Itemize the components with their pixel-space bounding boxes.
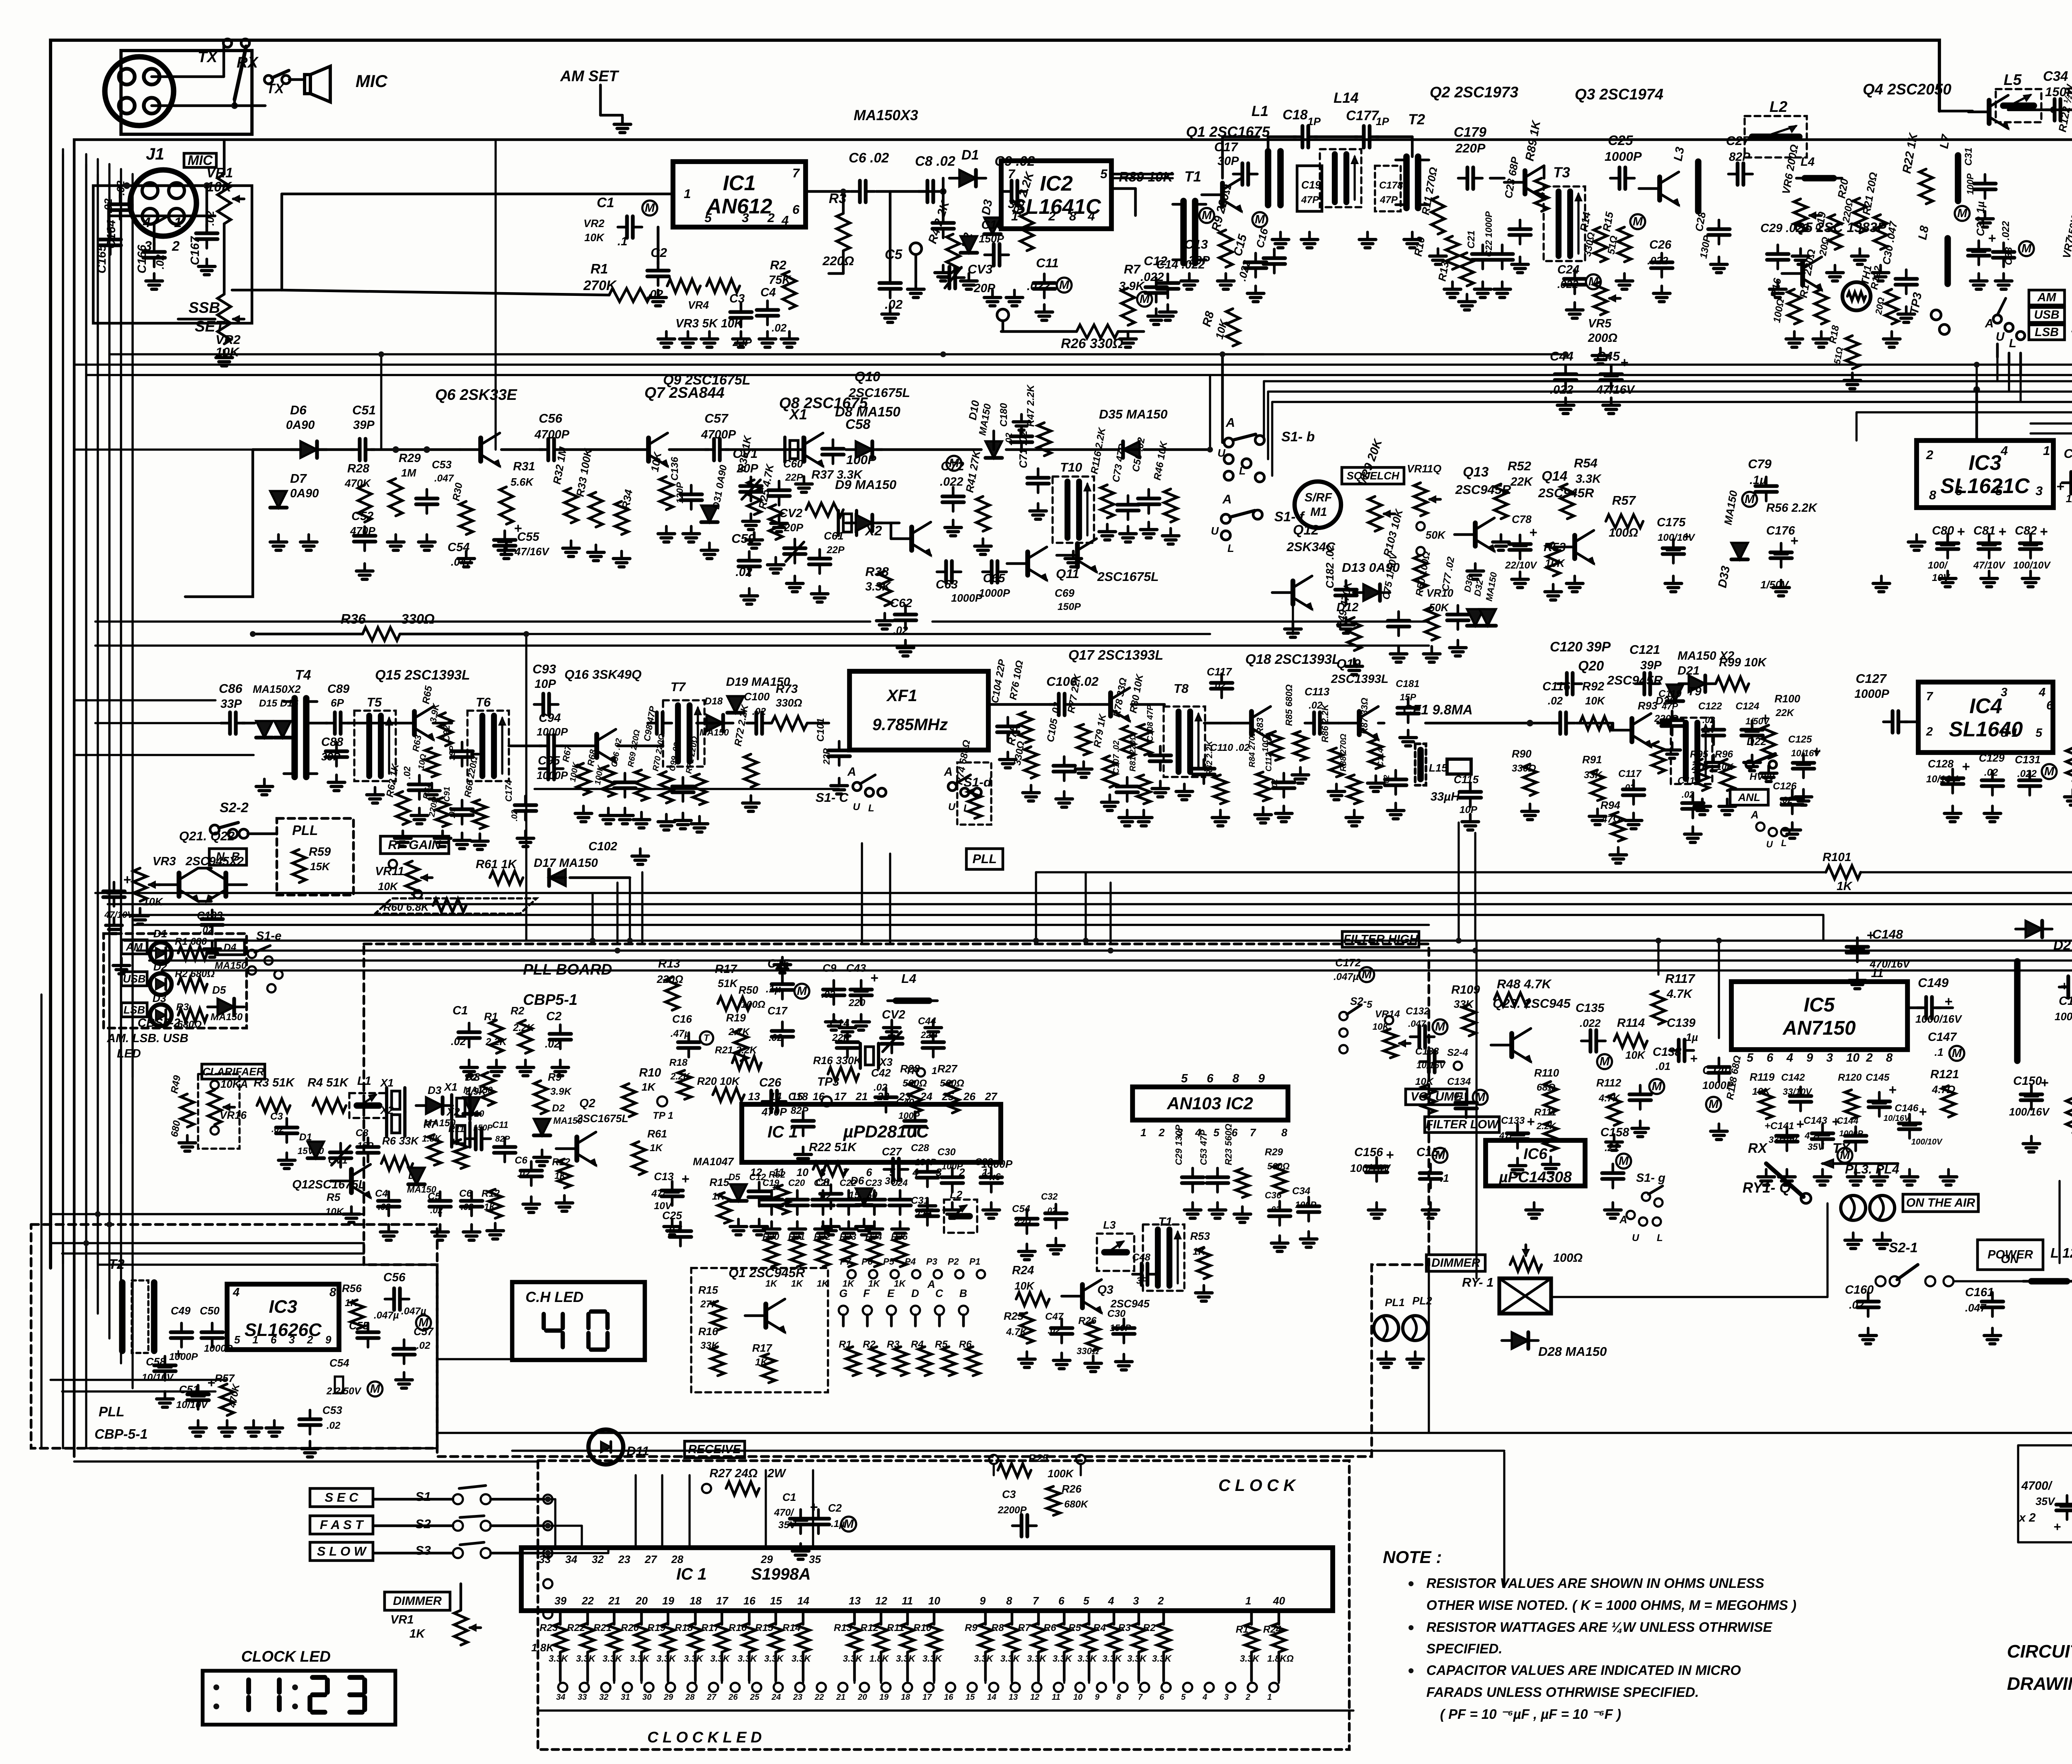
- svg-text:MIC: MIC: [356, 71, 388, 91]
- svg-text:M: M: [1435, 1020, 1445, 1033]
- ON THE AIR box: [1903, 1194, 1978, 1212]
- resistor R15 clock ladder: [775, 1611, 777, 1624]
- svg-text:C17: C17: [767, 1004, 788, 1017]
- svg-text:32: 32: [599, 1693, 608, 1702]
- svg-text:R48 4.7K: R48 4.7K: [1497, 977, 1552, 991]
- wire mid verticals: [525, 634, 527, 941]
- svg-text:C55: C55: [349, 1319, 369, 1332]
- svg-text:CBS5-2: CBS5-2: [138, 1016, 180, 1030]
- svg-text:100/: 100/: [1928, 560, 1948, 571]
- svg-text:C3: C3: [729, 292, 745, 305]
- svg-text:L 12: L 12: [2050, 1245, 2072, 1261]
- ground: [1946, 571, 1949, 578]
- ground: [1612, 1203, 1615, 1210]
- ground: [932, 1020, 935, 1028]
- svg-text:R119: R119: [1750, 1071, 1775, 1083]
- svg-text:3.3K: 3.3K: [896, 1653, 916, 1664]
- wire horizontal buses below top band: [109, 353, 1264, 355]
- svg-text:FILTER LOW: FILTER LOW: [1426, 1118, 1499, 1131]
- svg-text:R6: R6: [1043, 1622, 1056, 1633]
- svg-text:x6: x6: [989, 1171, 1001, 1183]
- svg-text:R59: R59: [309, 845, 331, 859]
- svg-text:.02: .02: [885, 297, 903, 312]
- resistor R18 clock ladder: [694, 1611, 697, 1624]
- ground: [1692, 827, 1694, 834]
- R60 dashed pot: [375, 898, 537, 914]
- svg-text:C32 1µ: C32 1µ: [1974, 201, 1987, 236]
- svg-text:.02: .02: [821, 989, 835, 1000]
- svg-text:R57: R57: [1612, 493, 1636, 508]
- ground: [2030, 1136, 2033, 1144]
- ground: [582, 806, 585, 813]
- svg-text:9: 9: [980, 1595, 986, 1607]
- svg-text:MA150X3: MA150X3: [854, 107, 918, 123]
- svg-text:1000/16V: 1000/16V: [1915, 1013, 1963, 1025]
- svg-text:L14: L14: [1334, 90, 1358, 106]
- svg-text:10/16V: 10/16V: [142, 1372, 174, 1383]
- svg-text:A: A: [847, 765, 856, 779]
- svg-text:82P: 82P: [495, 1135, 510, 1144]
- ground: [1345, 617, 1348, 625]
- svg-text:22: 22: [814, 1693, 824, 1702]
- svg-text:31: 31: [621, 1693, 630, 1702]
- svg-text:R50: R50: [738, 984, 758, 996]
- DIMMER box clk: [385, 1592, 450, 1610]
- CLOCK dashed box: [538, 1461, 1349, 1749]
- wire rf gain: [248, 832, 277, 835]
- ground: [1385, 1352, 1388, 1359]
- ground: [1988, 571, 1991, 578]
- ground: [402, 831, 404, 838]
- svg-text:C177: C177: [1346, 108, 1380, 123]
- svg-text:+: +: [2060, 979, 2068, 993]
- svg-text:XF1: XF1: [886, 687, 917, 705]
- svg-text:6: 6: [1058, 1595, 1065, 1607]
- svg-text:VOLUME: VOLUME: [1411, 1090, 1463, 1103]
- svg-text:Q14: Q14: [1542, 468, 1567, 484]
- svg-text:2SC945X2: 2SC945X2: [185, 855, 244, 868]
- svg-text:AM SET: AM SET: [560, 68, 620, 85]
- ground: [363, 564, 366, 571]
- ground: [1469, 814, 1472, 822]
- ground: [1155, 309, 1158, 316]
- svg-text:T10: T10: [1060, 460, 1082, 474]
- svg-text:U: U: [1211, 525, 1219, 537]
- ground: [1867, 1328, 1870, 1336]
- svg-text:L: L: [1227, 542, 1234, 554]
- transistor Q10: [1025, 552, 1030, 575]
- svg-text:C122: C122: [1698, 701, 1722, 712]
- svg-text:S1998A: S1998A: [751, 1565, 811, 1583]
- svg-text:.22: .22: [1605, 1141, 1620, 1154]
- svg-text:2: 2: [1926, 448, 1933, 462]
- LED AM D1: [121, 940, 147, 954]
- svg-text:2: 2: [959, 1166, 965, 1178]
- svg-text:Q9 2SC1675L: Q9 2SC1675L: [663, 372, 750, 387]
- ground: [494, 1223, 497, 1231]
- svg-text:21: 21: [855, 1090, 868, 1103]
- svg-text:R85 680Ω: R85 680Ω: [1284, 685, 1294, 726]
- svg-text:R17: R17: [715, 963, 738, 976]
- svg-text:C53 47P: C53 47P: [1198, 1130, 1209, 1165]
- resistor R3 clock ladder: [1138, 1611, 1140, 1624]
- svg-text:39P: 39P: [1640, 659, 1662, 672]
- ground: [687, 332, 690, 339]
- svg-text:35V: 35V: [2036, 1495, 2056, 1508]
- svg-text:R26 330Ω: R26 330Ω: [1061, 336, 1123, 351]
- svg-text:RESISTOR VALUES ARE SHOWN: RESISTOR VALUES ARE SHOWN IN OHMS UNLESS: [1426, 1575, 1764, 1591]
- svg-text:IC4: IC4: [1969, 694, 2002, 718]
- svg-text:C9: C9: [823, 962, 837, 974]
- svg-text:R19: R19: [647, 1622, 666, 1633]
- svg-text:9: 9: [325, 1333, 332, 1346]
- ground: [665, 814, 668, 822]
- svg-text:M: M: [2044, 765, 2055, 778]
- svg-text:3.9K: 3.9K: [550, 1086, 572, 1097]
- ground: [468, 1060, 471, 1067]
- svg-text:+: +: [1957, 524, 1965, 539]
- svg-text:T4: T4: [295, 667, 311, 682]
- ground: [1672, 576, 1675, 583]
- svg-text:+: +: [1988, 230, 1996, 246]
- svg-text:.02: .02: [451, 1035, 466, 1048]
- PLL board dashed outline: [364, 944, 1429, 1457]
- ground: [1564, 398, 1567, 405]
- svg-text:C172: C172: [1335, 956, 1361, 969]
- ground: [350, 1207, 353, 1214]
- svg-text:VR5: VR5: [1588, 317, 1612, 330]
- ground: [1767, 766, 1770, 773]
- svg-text:C13: C13: [654, 1170, 674, 1183]
- svg-text:C158: C158: [1600, 1126, 1629, 1139]
- svg-text:470P: 470P: [761, 1106, 787, 1118]
- svg-text:U: U: [1996, 330, 2005, 344]
- diode D4 MA150: [215, 940, 244, 955]
- svg-text:1K: 1K: [868, 1278, 881, 1289]
- diode D21: [1689, 675, 1705, 692]
- svg-text:C91: C91: [443, 786, 452, 802]
- svg-text:ON THE AIR: ON THE AIR: [1906, 1196, 1975, 1210]
- switch TX speaker: [264, 75, 273, 84]
- svg-text:C10: C10: [981, 218, 1003, 232]
- svg-text:C23: C23: [865, 1178, 882, 1188]
- resistor R16 clock ladder: [748, 1611, 751, 1624]
- svg-text:47/16V: 47/16V: [1596, 383, 1636, 397]
- svg-text:1: 1: [684, 186, 691, 201]
- svg-text:CV1: CV1: [733, 446, 758, 461]
- svg-text:20P: 20P: [973, 282, 995, 295]
- svg-text:1: 1: [1011, 209, 1018, 223]
- ground: [708, 332, 711, 339]
- ground: [942, 265, 945, 273]
- svg-text:T6: T6: [476, 695, 491, 709]
- svg-text:R84 270Ω: R84 270Ω: [1248, 729, 1257, 767]
- svg-text:R53: R53: [1190, 1230, 1210, 1242]
- ground: [1852, 1233, 1855, 1240]
- C.H LED display box: [512, 1282, 645, 1360]
- svg-text:R25: R25: [1029, 1452, 1048, 1464]
- svg-text:4: 4: [781, 213, 789, 227]
- svg-text:USB: USB: [2034, 308, 2059, 322]
- wire pll-left horizontals: [51, 1213, 364, 1215]
- svg-text:C6 .02: C6 .02: [849, 150, 889, 165]
- wire Q4 output: [2008, 109, 2072, 111]
- svg-text:C133: C133: [1501, 1115, 1525, 1126]
- svg-text:R3: R3: [1118, 1622, 1131, 1633]
- svg-text:G: G: [839, 1287, 847, 1299]
- svg-text:ANL: ANL: [1738, 791, 1760, 803]
- svg-text:C52: C52: [351, 510, 373, 523]
- svg-text:R36: R36: [341, 611, 366, 627]
- ground: [991, 290, 994, 298]
- wire TX row bottom: [1222, 353, 1562, 355]
- svg-text:22P: 22P: [785, 472, 804, 483]
- svg-text:NOTE :: NOTE :: [1383, 1547, 1442, 1567]
- svg-text:T8: T8: [1174, 681, 1189, 696]
- svg-text:C116: C116: [1542, 680, 1571, 693]
- ground: [1718, 257, 1721, 264]
- svg-text:C57: C57: [704, 411, 729, 426]
- svg-text:C32: C32: [1041, 1191, 1058, 1202]
- svg-text:M: M: [1059, 278, 1070, 292]
- svg-text:X1: X1: [443, 1081, 457, 1093]
- svg-text:50K: 50K: [1426, 529, 1446, 541]
- ground: [758, 1219, 761, 1227]
- svg-text:X1: X1: [789, 407, 807, 423]
- svg-text:0A90: 0A90: [286, 419, 315, 432]
- svg-text:LSB: LSB: [2035, 326, 2059, 339]
- svg-text:13: 13: [849, 1595, 861, 1607]
- svg-text:5.6K: 5.6K: [511, 476, 534, 488]
- ground: [1043, 305, 1046, 312]
- ground: [915, 282, 917, 289]
- svg-text:16: 16: [743, 1595, 755, 1607]
- svg-text:TP 1: TP 1: [653, 1110, 673, 1121]
- svg-text:3: 3: [1133, 1595, 1139, 1607]
- svg-text:+: +: [2041, 1075, 2048, 1090]
- svg-text:Q3 2SC1974: Q3 2SC1974: [1575, 86, 1663, 103]
- svg-text:5: 5: [234, 1333, 240, 1346]
- svg-text:R88 270Ω: R88 270Ω: [1339, 733, 1348, 772]
- svg-text:1K: 1K: [409, 1627, 426, 1641]
- svg-text:4: 4: [2000, 443, 2008, 458]
- svg-text:.02: .02: [752, 706, 766, 717]
- svg-text:.022: .022: [1580, 1017, 1601, 1029]
- svg-text:P6: P6: [862, 1256, 873, 1267]
- svg-text:MA150: MA150: [215, 960, 247, 971]
- svg-text:C110 .02: C110 .02: [1210, 742, 1250, 753]
- ground: [530, 1197, 533, 1204]
- ground: [968, 273, 971, 281]
- svg-text:5: 5: [1747, 1051, 1754, 1065]
- svg-text:Q13: Q13: [1463, 464, 1489, 479]
- svg-text:+: +: [207, 1375, 215, 1390]
- mic gain trim: [910, 243, 922, 254]
- potentiometer VR3: [707, 279, 740, 293]
- junction dots scatter: [378, 351, 384, 357]
- svg-text:1K: 1K: [894, 1278, 906, 1289]
- ground: [1765, 1169, 1768, 1177]
- svg-text:Q3: Q3: [1097, 1283, 1113, 1297]
- svg-text:C20: C20: [788, 1178, 805, 1188]
- svg-text:C69: C69: [1055, 587, 1075, 599]
- svg-text:C2: C2: [828, 1502, 842, 1514]
- wire band3 horizontals: [95, 722, 224, 724]
- svg-text:330Ω: 330Ω: [1077, 1346, 1099, 1356]
- svg-text:F A S T: F A S T: [320, 1517, 365, 1532]
- svg-text:R121: R121: [1930, 1068, 1959, 1081]
- svg-text:S1- g: S1- g: [1636, 1171, 1665, 1185]
- svg-text:6: 6: [2046, 699, 2053, 712]
- svg-text:16: 16: [944, 1693, 954, 1702]
- svg-text:1: 1: [1267, 1693, 1272, 1702]
- svg-text:R16 330K: R16 330K: [813, 1054, 862, 1067]
- svg-text:L2: L2: [1769, 98, 1788, 115]
- svg-text:C92: C92: [441, 725, 452, 742]
- transistor Q9: [909, 527, 914, 550]
- svg-text:VR2: VR2: [583, 217, 605, 230]
- ground: [1109, 795, 1111, 802]
- ground: [1661, 286, 1663, 293]
- svg-text:CV3: CV3: [968, 262, 992, 276]
- ground: [1147, 522, 1150, 530]
- svg-text:R8: R8: [466, 1071, 480, 1083]
- svg-text:2: 2: [307, 1333, 313, 1346]
- op-amp IC3 SL1621C: [1917, 440, 2053, 508]
- ground: [951, 1203, 954, 1210]
- wire clock switches: [491, 1498, 544, 1501]
- ground: [1947, 1169, 1950, 1177]
- ground: [403, 1372, 406, 1380]
- svg-text:C17: C17: [1214, 140, 1239, 154]
- svg-text:Q19: Q19: [1336, 656, 1361, 671]
- svg-text:µPD2810C: µPD2810C: [843, 1122, 929, 1141]
- svg-text:5: 5: [1367, 999, 1372, 1010]
- svg-text:R17: R17: [752, 1342, 772, 1354]
- svg-text:Q10: Q10: [854, 369, 881, 384]
- svg-text:RECEIVE: RECEIVE: [688, 1443, 741, 1456]
- svg-text:C117: C117: [1207, 665, 1232, 678]
- transistor Q7: [646, 438, 651, 461]
- svg-text:M: M: [370, 1382, 380, 1396]
- svg-text:D22: D22: [1747, 735, 1767, 748]
- svg-text:D4: D4: [224, 942, 237, 953]
- resistor R12 clock ladder: [880, 1611, 883, 1624]
- svg-text:.02: .02: [402, 766, 412, 779]
- ground: [766, 332, 769, 339]
- svg-text:26: 26: [963, 1090, 975, 1103]
- ground: [495, 1060, 498, 1067]
- svg-text:47P: 47P: [1661, 701, 1678, 711]
- colon dots: [213, 1684, 219, 1690]
- ground: [595, 545, 598, 552]
- svg-text:C3: C3: [1002, 1488, 1016, 1500]
- svg-text:ON: ON: [2001, 1253, 2019, 1266]
- FILTER HIGH box: [1342, 932, 1419, 947]
- svg-text:R26: R26: [1062, 1483, 1082, 1495]
- svg-text:7: 7: [792, 166, 800, 180]
- ground: [860, 1014, 863, 1022]
- svg-text:39: 39: [554, 1595, 566, 1607]
- svg-text:OTHER WISE NOTED. ( K = 1000: OTHER WISE NOTED. ( K = 1000 OHMS, M = M…: [1426, 1597, 1796, 1613]
- FET Q16: [594, 734, 599, 757]
- ground: [153, 273, 156, 281]
- svg-text:R60 6.8K: R60 6.8K: [383, 901, 430, 913]
- svg-text:R94: R94: [1600, 799, 1620, 811]
- thermistor TH1: [1842, 282, 1871, 310]
- svg-text:220: 220: [848, 997, 866, 1009]
- svg-text:C82: C82: [2015, 524, 2037, 537]
- svg-text:AM: AM: [126, 941, 143, 953]
- svg-text:R18: R18: [675, 1622, 693, 1633]
- ground: [186, 1135, 189, 1143]
- svg-text:FARADS UNLESS OTHRWISE SPECI: FARADS UNLESS OTHRWISE SPECIFIED.: [1426, 1684, 1699, 1700]
- svg-text:11: 11: [1052, 1693, 1060, 1702]
- svg-text:TX: TX: [266, 81, 285, 96]
- svg-text:R82 2.2K: R82 2.2K: [1205, 740, 1214, 776]
- svg-text:D7: D7: [290, 471, 307, 486]
- resistor R10 clock ladder: [933, 1611, 936, 1624]
- svg-text:3.3K: 3.3K: [710, 1653, 731, 1664]
- svg-text:20P: 20P: [784, 521, 804, 534]
- svg-text:M: M: [1588, 275, 1599, 288]
- svg-text:IC3: IC3: [1968, 451, 2001, 474]
- resistor R4 clock ladder: [1113, 1611, 1116, 1624]
- svg-text:D35 MA150: D35 MA150: [1099, 407, 1167, 421]
- svg-text:.02: .02: [769, 1032, 783, 1043]
- svg-text:C101: C101: [815, 718, 826, 742]
- IC1 S1998A box: [521, 1548, 1333, 1611]
- svg-text:R3 51K: R3 51K: [254, 1076, 295, 1089]
- svg-text:26: 26: [728, 1693, 738, 1702]
- svg-text:C114: C114: [1376, 748, 1385, 767]
- ground: [1500, 535, 1503, 542]
- svg-text:LSB: LSB: [123, 1004, 145, 1016]
- svg-text:10: 10: [928, 1595, 940, 1607]
- coil L3: [1695, 162, 1702, 211]
- ground: [431, 783, 433, 791]
- svg-text:C1: C1: [597, 195, 614, 210]
- svg-text:3.3K: 3.3K: [1027, 1653, 1047, 1664]
- svg-text:R28: R28: [347, 462, 370, 475]
- svg-text:VR3: VR3: [152, 855, 176, 868]
- ground: [1126, 810, 1129, 818]
- ground: [803, 477, 806, 484]
- svg-text:D: D: [911, 1287, 919, 1299]
- svg-text:L15: L15: [1429, 762, 1447, 774]
- svg-text:10K: 10K: [1014, 1280, 1035, 1292]
- svg-text:SSB: SSB: [189, 299, 220, 316]
- wire power feeds: [1953, 1280, 2072, 1282]
- svg-text:22P: 22P: [826, 544, 845, 556]
- wire right feed horizontals: [1264, 380, 2072, 382]
- op-amp IC4 SL1640: [1918, 682, 2053, 753]
- ground: [1599, 348, 1602, 356]
- svg-text:C54: C54: [329, 1357, 349, 1369]
- svg-text:PL1: PL1: [1385, 1296, 1405, 1309]
- svg-text:M: M: [1600, 1055, 1610, 1068]
- ground: [1431, 646, 1433, 654]
- svg-text:C L O C K L E D: C L O C K L E D: [647, 1729, 762, 1746]
- svg-text:.1µ: .1µ: [766, 982, 781, 995]
- ground: [1718, 1124, 1721, 1131]
- ground: [671, 1219, 674, 1227]
- svg-text:1K: 1K: [650, 1142, 663, 1154]
- LED LSB D3: [121, 1003, 147, 1017]
- wire SL1621 top: [1975, 390, 1978, 440]
- svg-text:3: 3: [2036, 484, 2043, 498]
- connector XLR TX/RX plug: [121, 51, 252, 134]
